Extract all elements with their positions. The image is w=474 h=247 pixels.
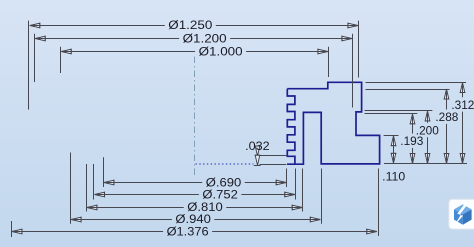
- svg-text:.110: .110: [382, 170, 405, 184]
- extension lines for right-side height dimensions: [365, 83, 468, 164]
- svg-text:.032: .032: [245, 139, 270, 153]
- dimension .200: [416, 111, 439, 164]
- dimension O.690: [104, 157, 287, 189]
- dimension O.810: [87, 164, 303, 214]
- dimension O.940: [71, 153, 322, 227]
- svg-text:Ø1.250: Ø1.250: [168, 18, 212, 32]
- dimension .032 (leader with stacked down arrows): [245, 139, 286, 166]
- dimension .193: [400, 114, 423, 164]
- svg-text:Ø1.200: Ø1.200: [183, 31, 227, 45]
- dimension O1.250: [29, 18, 359, 110]
- svg-text:Ø1.376: Ø1.376: [167, 224, 209, 238]
- dimension .288: [435, 89, 458, 164]
- svg-text:Ø1.000: Ø1.000: [199, 45, 243, 59]
- centerline (vertical axis, dash-dot): [194, 57, 196, 178]
- dimension O1.000: [61, 45, 329, 77]
- svg-text:.193: .193: [400, 134, 423, 148]
- part outline (cross-section: castellated rim, slot, stepped right wall): [287, 82, 380, 164]
- dimension .312: [451, 83, 474, 164]
- svg-text:.288: .288: [435, 110, 458, 124]
- logo (white rounded card with blue faceted cube, bottom right): [449, 199, 474, 229]
- dimension O1.200: [35, 31, 353, 107]
- dotted reference line at part bottom: [196, 163, 254, 165]
- dimension .110: [382, 136, 405, 184]
- dimension O1.376: [12, 169, 379, 239]
- dimension O.752: [94, 164, 296, 202]
